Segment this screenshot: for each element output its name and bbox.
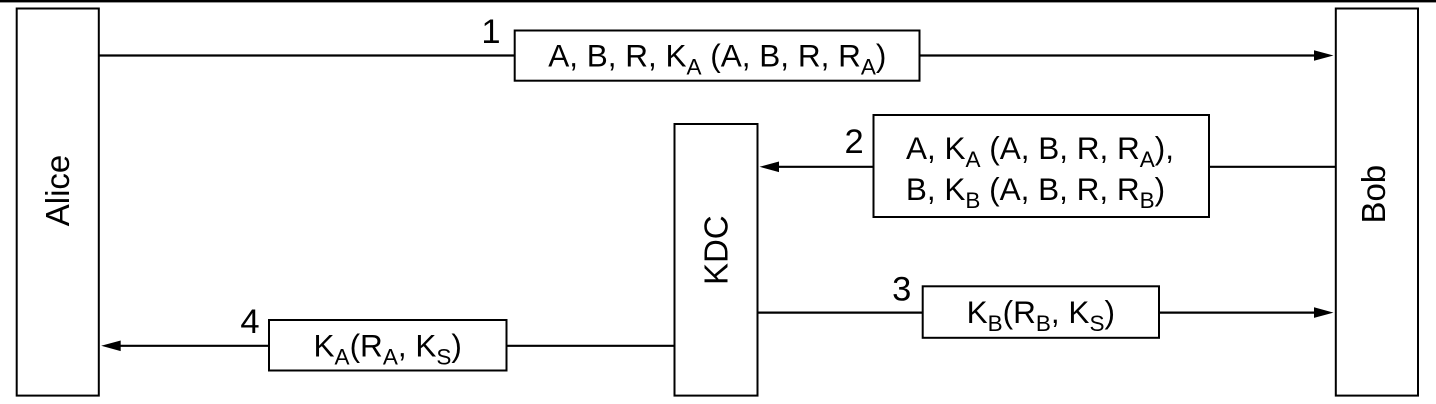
wire msg4 box4 to Alice [119,345,269,347]
arrowhead msg2 at KDC [760,162,780,173]
message box 2 [874,115,1210,217]
svg-text:A, KA (A, B, R, RA),: A, KA (A, B, R, RA), [906,130,1174,172]
svg-text:A, B, R, KA (A, B, R, RA): A, B, R, KA (A, B, R, RA) [548,37,886,79]
wire msg2 box2 to KDC [777,166,874,168]
actor box Alice [17,9,99,396]
arrowhead msg4 at Alice [101,341,121,352]
svg-text:4: 4 [240,303,259,341]
wire msg2 Bob to box2 [1209,166,1336,168]
wire msg1 Alice to box1 [99,54,515,56]
message box 1 [515,31,920,81]
actor box KDC [675,124,758,396]
message box 3 [923,286,1159,338]
top rule [0,0,1436,2]
wire msg3 KDC to box3 [758,312,923,314]
svg-text:Bob: Bob [1355,165,1392,224]
message box 4 [269,320,507,371]
wire msg3 box3 to Bob [1159,312,1316,314]
wire msg4 KDC to box4 [507,345,675,347]
svg-text:Alice: Alice [39,155,76,227]
svg-text:B, KB (A, B, R, RB): B, KB (A, B, R, RB) [906,171,1165,213]
arrowhead msg1 at Bob [1314,50,1334,61]
svg-text:2: 2 [845,123,864,161]
wire msg1 box1 to Bob [920,54,1317,56]
svg-text:1: 1 [481,13,500,51]
arrowhead msg3 at Bob [1314,307,1334,318]
actor box Bob [1336,9,1418,396]
svg-text:KDC: KDC [698,215,735,285]
svg-text:3: 3 [892,271,911,309]
